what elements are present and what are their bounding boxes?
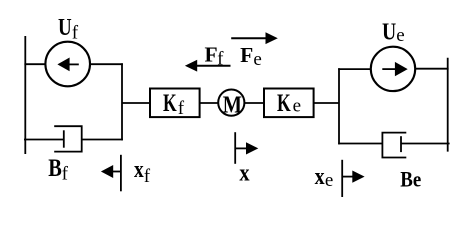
wire left rail to source Uf [24, 63, 45, 65]
right rail wire [447, 58, 449, 152]
velocity source Ue [371, 47, 415, 91]
svg-text:F: F [205, 43, 218, 67]
position marker xe [342, 160, 364, 197]
svg-text:f: f [144, 166, 151, 187]
wire inner vertical (left loop) [121, 63, 123, 140]
svg-text:B: B [48, 155, 62, 182]
label Ff [205, 43, 225, 70]
left rail wire [24, 36, 26, 154]
svg-text:K: K [163, 90, 177, 117]
wire left axis to Kf [122, 102, 150, 104]
force arrow Ff [185, 60, 231, 72]
position marker x [235, 132, 258, 164]
svg-text:f: f [178, 98, 185, 119]
spring box Ke [264, 89, 314, 118]
svg-text:e: e [325, 170, 333, 191]
wire inner vertical to source Ue [338, 68, 371, 70]
svg-text:e: e [253, 49, 261, 70]
wire mass M to Ke [244, 102, 264, 104]
mass M [218, 90, 244, 119]
svg-text:e: e [396, 25, 404, 46]
wire Kf to mass M [200, 102, 219, 104]
label Fe [240, 43, 262, 70]
svg-text:M: M [223, 93, 242, 119]
label xf [134, 157, 151, 187]
wire Ke to right loop [314, 102, 340, 104]
svg-text:U: U [382, 19, 396, 45]
damper Be [338, 133, 449, 158]
position marker xf [101, 155, 121, 192]
label Uf [58, 15, 79, 43]
svg-text:K: K [277, 90, 291, 117]
label Kf [163, 90, 185, 119]
svg-text:e: e [293, 96, 301, 117]
wire right loop inner vertical [338, 68, 340, 144]
svg-text:F: F [240, 43, 253, 67]
svg-text:U: U [58, 15, 72, 41]
label Ue [382, 19, 405, 46]
wire source Uf to inner vertical [90, 63, 123, 65]
spring box Kf [150, 89, 200, 118]
label xe [315, 164, 334, 191]
label Bf [48, 155, 68, 185]
svg-text:f: f [62, 163, 69, 184]
svg-text:f: f [217, 48, 224, 69]
force arrow Fe [231, 32, 278, 44]
label Ke [277, 90, 301, 117]
damper Bf [24, 126, 123, 151]
svg-text:x: x [239, 161, 249, 187]
svg-text:f: f [72, 22, 79, 43]
wire source Ue to right rail [415, 68, 448, 70]
svg-text:x: x [134, 157, 144, 183]
svg-text:x: x [315, 164, 325, 190]
svg-text:Be: Be [400, 167, 421, 192]
velocity source Uf [45, 42, 90, 87]
